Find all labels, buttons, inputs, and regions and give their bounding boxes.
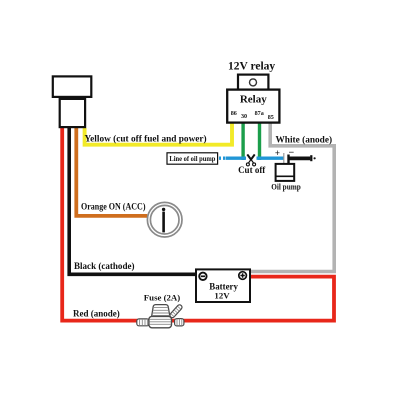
svg-text:12V: 12V: [214, 291, 230, 301]
svg-text:Line of oil pump: Line of oil pump: [169, 156, 215, 163]
oil pump terminal pins: [283, 153, 285, 164]
wire black (oil pump - terminal lead): [289, 156, 311, 160]
wire green (relay pin 30 to oil pump line): [241, 123, 244, 161]
fuse F1 (inline fuse holder): [137, 304, 184, 328]
relay tab circle: [250, 79, 257, 86]
wire red (anode: connector to fuse to battery +): [62, 128, 334, 321]
svg-text:Yellow (cut off fuel and power: Yellow (cut off fuel and power): [85, 134, 207, 145]
wire orange (connector to ignition ACC): [76, 128, 147, 216]
wire black (cathode: connector to battery -): [69, 128, 195, 274]
wire yellow (connector to relay pin 86): [85, 123, 232, 145]
connector plug (lower housing): [60, 99, 85, 127]
svg-text:Black (cathode): Black (cathode): [74, 261, 135, 272]
ignition switch (key symbol): [147, 202, 182, 237]
fuse body: [149, 316, 172, 327]
svg-text:86: 86: [231, 111, 237, 117]
svg-text:87a: 87a: [255, 111, 264, 117]
battery box: [196, 269, 250, 302]
svg-text:85: 85: [268, 115, 274, 121]
svg-text:+: +: [275, 148, 280, 158]
wire blue (oil pump line, left of cut): [226, 156, 247, 159]
relay U1 main box: [227, 90, 279, 123]
connector plug (top housing): [53, 76, 92, 97]
fuse left nut: [137, 319, 149, 326]
scissors (cut symbol): [246, 154, 255, 166]
svg-text:Oil pump: Oil pump: [271, 182, 301, 191]
relay top tab: [238, 75, 268, 90]
fuse lever: [169, 304, 183, 319]
battery plus terminal: [239, 272, 247, 280]
svg-text:Orange ON (ACC): Orange ON (ACC): [81, 201, 146, 211]
svg-text:Fuse (2A): Fuse (2A): [144, 293, 180, 303]
svg-text:Relay: Relay: [240, 93, 267, 105]
fuse top cap: [152, 305, 170, 317]
battery minus terminal: [199, 273, 206, 280]
svg-text:12V relay: 12V relay: [228, 61, 275, 73]
label box: Line of oil pump: [167, 153, 218, 164]
wire blue dashed (from label to oil pump line): [219, 156, 225, 159]
svg-text:White (anode): White (anode): [276, 134, 333, 145]
wire white/grey (relay pin 85 to battery +): [251, 123, 335, 272]
svg-text:Red (anode): Red (anode): [73, 308, 120, 318]
oil pump body: [276, 164, 295, 181]
svg-text:30: 30: [241, 114, 247, 120]
svg-text:Cut off: Cut off: [238, 165, 266, 175]
fuse right nut: [175, 319, 184, 326]
wire blue (oil pump line, right of cut): [257, 156, 285, 159]
wire green (relay pin 87a to oil pump line): [258, 123, 261, 161]
